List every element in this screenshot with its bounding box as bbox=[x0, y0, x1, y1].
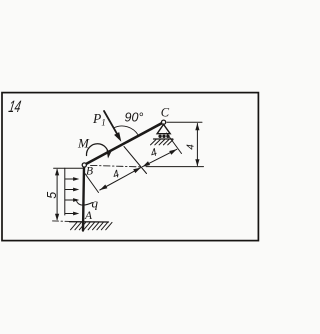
svg-text:14: 14 bbox=[7, 97, 22, 116]
svg-text:M: M bbox=[77, 135, 90, 150]
support A hatching bbox=[71, 222, 113, 229]
svg-text:4: 4 bbox=[149, 146, 159, 159]
dimension 5 line bbox=[55, 168, 59, 220]
border frame bbox=[2, 93, 258, 241]
top extension line from C bbox=[167, 121, 202, 123]
distributed load q arrow 4 bbox=[65, 212, 79, 216]
node B bbox=[82, 163, 86, 167]
dimension 4 segment B-mid bbox=[100, 168, 141, 190]
distributed load q arrow 2 bbox=[65, 188, 79, 192]
force P1 arrowhead bbox=[114, 132, 121, 142]
dimension 4 vertical line bbox=[195, 123, 199, 166]
dash-dot centerline from B bbox=[91, 165, 142, 167]
support A ground line bbox=[70, 221, 109, 223]
node C bbox=[162, 120, 166, 124]
extension line below C bbox=[167, 133, 182, 154]
force P1 line bbox=[104, 111, 119, 137]
wire beam BC bbox=[86, 123, 162, 164]
distributed load q arrow 1 bbox=[65, 177, 79, 181]
svg-text:5: 5 bbox=[45, 192, 59, 199]
wire member AB bbox=[83, 166, 84, 231]
svg-text:4: 4 bbox=[111, 168, 121, 181]
extension line below P1 point bbox=[124, 147, 147, 174]
distributed load q left line bbox=[64, 168, 66, 215]
svg-text:C: C bbox=[161, 105, 170, 119]
dimension 4 segment mid-C bbox=[143, 149, 177, 166]
svg-text:A: A bbox=[84, 210, 93, 222]
label q leader bbox=[76, 200, 92, 205]
moment M arc bbox=[86, 144, 108, 156]
support C ground line bbox=[154, 138, 173, 140]
right-angle arc bbox=[114, 126, 139, 135]
distributed load q top line bbox=[54, 167, 83, 169]
extension line below B bbox=[84, 172, 99, 193]
bottom extension line (solid) bbox=[146, 166, 204, 168]
dash-dot ground line left of A bbox=[53, 220, 70, 223]
support C hatching bbox=[151, 140, 174, 145]
support C triangle bbox=[157, 124, 170, 133]
support C rollers bbox=[158, 135, 169, 138]
svg-text:P1: P1 bbox=[92, 111, 106, 128]
distributed load q arrow 3 bbox=[65, 198, 79, 202]
svg-text:4: 4 bbox=[186, 144, 197, 150]
svg-text:90°: 90° bbox=[125, 111, 144, 125]
